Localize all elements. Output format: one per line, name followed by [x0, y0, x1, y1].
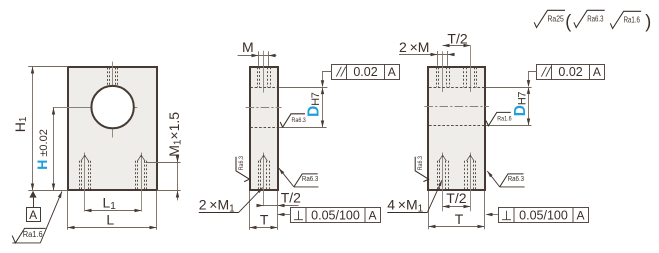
svg-text:Ra6.3: Ra6.3 [302, 176, 318, 183]
svg-text:Ra1.6: Ra1.6 [497, 115, 512, 122]
svg-text:(: ( [565, 12, 571, 32]
svg-text:Ra1.6: Ra1.6 [624, 15, 640, 25]
svg-text:A: A [593, 65, 601, 79]
svg-text:0.02: 0.02 [353, 65, 377, 79]
svg-text:Ra6.3: Ra6.3 [238, 156, 245, 171]
svg-text:Ra6.3: Ra6.3 [587, 14, 603, 24]
svg-text:2 ×M: 2 ×M [399, 39, 429, 55]
svg-text:A: A [388, 65, 396, 79]
svg-text:Ra6.3: Ra6.3 [417, 156, 424, 171]
svg-text:A: A [576, 209, 584, 223]
svg-text:A: A [368, 209, 376, 223]
svg-text:T/2: T/2 [281, 190, 301, 206]
svg-text:T: T [260, 211, 269, 227]
svg-text:L: L [106, 211, 114, 227]
svg-text:0.05/100: 0.05/100 [311, 209, 360, 223]
svg-text:T/2: T/2 [446, 190, 466, 206]
svg-text:A: A [29, 208, 37, 222]
svg-text:Ra1.6: Ra1.6 [23, 230, 44, 239]
svg-text:0.05/100: 0.05/100 [519, 209, 568, 223]
svg-text:T/2: T/2 [447, 31, 467, 47]
svg-text:T: T [455, 211, 464, 227]
svg-text:Ra25: Ra25 [548, 14, 565, 24]
svg-text:Ra6.3: Ra6.3 [508, 176, 524, 183]
svg-text:M: M [242, 39, 254, 55]
svg-text:0.02: 0.02 [558, 65, 582, 79]
svg-text:Ra6.3: Ra6.3 [292, 117, 307, 124]
svg-text:M1×1.5: M1×1.5 [166, 112, 184, 157]
svg-text:): ) [645, 12, 651, 32]
